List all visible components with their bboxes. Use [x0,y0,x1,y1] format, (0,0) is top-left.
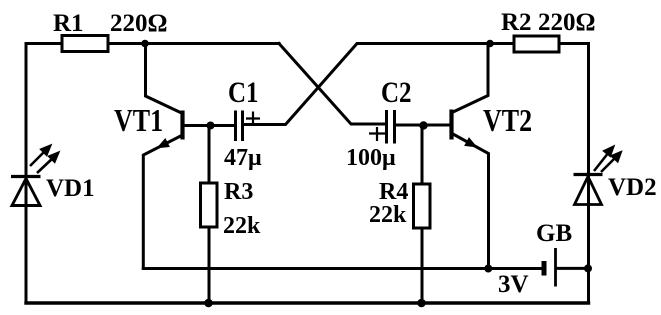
svg-text:VD1: VD1 [46,175,95,202]
svg-text:VD2: VD2 [608,174,657,201]
svg-text:220Ω: 220Ω [538,9,596,36]
svg-text:47μ: 47μ [224,145,262,171]
svg-text:220Ω: 220Ω [110,10,168,37]
svg-text:VT2: VT2 [483,104,532,139]
svg-text:C2: C2 [381,76,412,108]
svg-text:GB: GB [536,220,572,247]
svg-text:VT1: VT1 [114,104,163,139]
svg-text:C1: C1 [228,76,259,108]
svg-text:3V: 3V [498,271,529,298]
svg-text:22k: 22k [223,213,261,239]
svg-text:R3: R3 [224,179,253,205]
svg-text:R1: R1 [53,10,84,37]
svg-text:100μ: 100μ [346,145,396,171]
svg-text:R2: R2 [501,9,532,36]
svg-text:22k: 22k [369,202,407,228]
